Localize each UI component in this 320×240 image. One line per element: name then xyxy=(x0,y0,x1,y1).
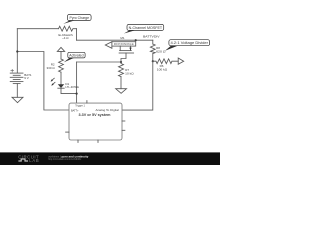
block pin stub bottom 1 xyxy=(77,140,79,142)
svg-text:M1: M1 xyxy=(120,36,124,40)
wire divider riser to trigger xyxy=(122,61,153,110)
flag up at R2 top xyxy=(57,47,64,51)
wire top row to resistor xyxy=(17,28,58,30)
MOSFET M1 flag xyxy=(105,42,112,49)
wire battery branch to trigger BATT+ xyxy=(17,52,69,111)
svg-text:Trigger 1: Trigger 1 xyxy=(75,104,85,108)
block pin stub right 2 xyxy=(122,129,125,131)
svg-text:10 kΩ: 10 kΩ xyxy=(125,72,134,76)
wire corner down to drain row xyxy=(76,29,78,41)
svg-text:Analog To Digital: Analog To Digital xyxy=(96,108,120,112)
wire M1 gate jog xyxy=(121,53,126,62)
svg-text:LAB: LAB xyxy=(29,158,39,163)
label R7 xyxy=(125,68,134,76)
svg-text:9 V: 9 V xyxy=(24,76,29,80)
wire battery to ground xyxy=(16,84,18,98)
callout Activated xyxy=(64,52,85,62)
wire R8 to junction xyxy=(152,54,154,62)
svg-text:Pyro Charge: Pyro Charge xyxy=(70,16,90,20)
svg-text:LTL-307EE: LTL-307EE xyxy=(65,85,79,89)
svg-text:3.3V or 5V system: 3.3V or 5V system xyxy=(79,113,112,117)
svg-text:Activated: Activated xyxy=(69,54,83,58)
wire drain row xyxy=(77,39,153,41)
block Trigger 1 box xyxy=(69,103,122,140)
block pin stub right 1 xyxy=(122,120,125,122)
flag right open xyxy=(178,58,184,64)
callout N-Channel MOSFET xyxy=(124,24,164,33)
node junction battery xyxy=(16,50,18,52)
svg-text:http://circuitlab.com/c/ucb4bf: http://circuitlab.com/c/ucb4bfdc xyxy=(48,157,82,161)
label R2 xyxy=(47,62,56,70)
svg-text:~4 Ω: ~4 Ω xyxy=(62,36,69,40)
svg-text:N-Channel MOSFET: N-Channel MOSFET xyxy=(129,26,163,30)
resistor R7 10k xyxy=(119,62,124,77)
resistor R6 100k horizontal xyxy=(153,59,178,64)
wire gate riser into trigger block xyxy=(76,62,78,103)
block pin stub top xyxy=(86,101,88,104)
wire gate row xyxy=(77,61,121,63)
battery BAT1 plates xyxy=(16,52,18,74)
LED emission arrows xyxy=(52,78,55,80)
svg-text:100 kΩ: 100 kΩ xyxy=(157,68,168,72)
MOSFET M1 body glyph xyxy=(119,46,121,51)
block pin stub left xyxy=(66,131,69,133)
svg-text:4.2:1 Voltage Divider: 4.2:1 Voltage Divider xyxy=(171,41,209,45)
LED D1 triangle xyxy=(58,84,64,88)
svg-text:RFP30N06LE: RFP30N06LE xyxy=(114,43,135,46)
callout 4.2:1 Voltage Divider xyxy=(165,40,210,51)
node junction divider xyxy=(152,60,154,62)
wire R2 to LED xyxy=(60,72,62,84)
wire battery riser left column xyxy=(16,29,18,52)
svg-text:330 Ω: 330 Ω xyxy=(47,66,56,70)
block pin stub bottom 2 xyxy=(97,140,99,142)
ground G1 xyxy=(12,97,23,102)
resistor R1 E-Match 4ohm xyxy=(59,26,77,31)
label R6 xyxy=(157,64,168,72)
footer bar xyxy=(0,152,220,165)
MOSFET M1 label box RFP30N06LE xyxy=(112,42,136,46)
node junction LED-gate xyxy=(76,93,78,95)
resistor R2 330ohm xyxy=(59,59,64,72)
node junction gate R7 xyxy=(120,61,122,63)
label D1 xyxy=(65,82,79,89)
wire drain corner down to R8 xyxy=(152,40,154,44)
wire R7 to ground xyxy=(120,77,122,89)
svg-text:BATT+: BATT+ xyxy=(71,108,79,112)
svg-text:BATTVDIV: BATTVDIV xyxy=(143,34,160,38)
node junction drain at box corner xyxy=(135,39,137,41)
wire LED bottom row xyxy=(61,88,77,93)
resistor R8 620ohm xyxy=(150,44,155,54)
battery plus sign xyxy=(11,69,14,72)
labels resistor E-Match xyxy=(58,33,73,40)
callout Pyro Charge xyxy=(63,15,91,24)
label BAT1 xyxy=(24,73,32,80)
ground G2 xyxy=(116,89,127,94)
label R8 xyxy=(156,46,166,54)
svg-text:620 Ω: 620 Ω xyxy=(156,50,166,54)
